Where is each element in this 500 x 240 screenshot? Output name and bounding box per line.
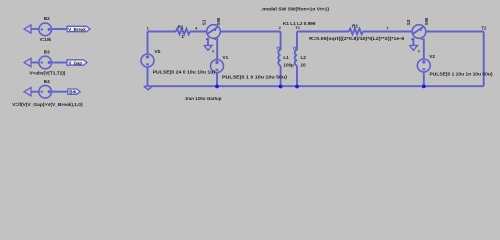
wire top rail L2 to R2: [297, 31, 349, 33]
svg-text:Brk: Brk: [69, 90, 77, 95]
svg-text:S1: S1: [202, 19, 207, 25]
svg-text:R1: R1: [178, 24, 184, 29]
wire: [52, 91, 68, 93]
net flag V_Break: [67, 26, 90, 31]
ground bottom-left: [144, 86, 153, 90]
wire: [31, 28, 39, 30]
inductor L2: [296, 32, 298, 51]
wire top left vertical: [147, 32, 149, 55]
svg-text:B4: B4: [44, 79, 50, 84]
pin mark S1 left: [206, 39, 207, 40]
wire top rail left: [148, 31, 177, 33]
svg-text:V=10k: V=10k: [40, 37, 52, 42]
wire: [52, 62, 68, 64]
resistor R2: [349, 29, 363, 35]
svg-text:.model SW SW(Ron=1n Vt=1): .model SW SW(Ron=1n Vt=1): [261, 6, 330, 11]
bv source B2: [39, 23, 52, 36]
wire bottom rail: [148, 85, 484, 87]
svg-text:B2: B2: [44, 16, 50, 21]
wire: [31, 91, 39, 93]
wire top rail S1 to L1: [220, 31, 280, 33]
left arrow flag row B: [24, 58, 31, 66]
left arrow flag row C: [24, 88, 31, 96]
svg-text:S2: S2: [406, 19, 411, 25]
svg-text:0: 0: [212, 50, 214, 54]
net flag V_Gap: [67, 60, 87, 65]
wire Vb bottom: [147, 67, 149, 86]
switch S2: [412, 25, 426, 39]
svg-text:R=0.05(sqrt(((2*0.8)/10)*I(L2): R=0.05(sqrt(((2*0.8)/10)*I(L2)**2))*1e-6: [309, 36, 405, 41]
voltage source V1: [211, 60, 224, 73]
svg-text:K1 L1 L2 0.999: K1 L1 L2 0.999: [283, 21, 316, 26]
svg-text:V_Break: V_Break: [68, 27, 86, 32]
bv source B3: [39, 56, 52, 69]
svg-text:B3: B3: [44, 50, 50, 55]
svg-text:SW: SW: [216, 17, 221, 25]
ground: [204, 45, 212, 50]
wire: [31, 62, 39, 64]
resistor R1: [176, 29, 190, 35]
svg-text:L1: L1: [283, 55, 289, 60]
svg-text:T2: T2: [481, 25, 487, 30]
svg-text:Vb: Vb: [155, 49, 161, 54]
svg-text:PULSE(0 1 10u 1n 10u 50u): PULSE(0 1 10u 1n 10u 50u): [430, 72, 493, 77]
pin mark S2 right: [421, 39, 422, 40]
svg-text:.tran 120u startup: .tran 120u startup: [184, 96, 221, 101]
wire: [363, 31, 412, 33]
svg-text:V_Gap: V_Gap: [69, 60, 83, 65]
wire V1 bottom: [216, 73, 218, 87]
svg-text:PULSE(0 1 0 10u 10u 50u): PULSE(0 1 0 10u 10u 50u): [222, 74, 288, 79]
junction dot L2: [295, 85, 299, 89]
svg-text:100µ: 100µ: [283, 62, 294, 67]
svg-text:V1: V1: [223, 55, 229, 60]
pin mark S1 right: [215, 39, 216, 40]
svg-text:0: 0: [418, 50, 420, 54]
switch S1: [207, 25, 221, 39]
svg-text:V=if(V(V_Gap)>V(V_Break),1,0): V=if(V(V_Gap)>V(V_Break),1,0): [12, 102, 83, 107]
svg-text:V=abs(V(T1,T2)): V=abs(V(T1,T2)): [29, 70, 65, 75]
junction dot L1: [279, 85, 283, 89]
svg-text:1: 1: [181, 34, 184, 39]
voltage source Vb: [141, 54, 154, 67]
voltage source V2: [417, 59, 430, 72]
svg-text:PULSE(0 24 0 10u 10u 1u): PULSE(0 24 0 10u 10u 1u): [153, 69, 216, 74]
svg-text:L2: L2: [301, 55, 307, 60]
wire top rail right: [426, 31, 484, 33]
wire right vertical: [483, 32, 485, 87]
junction dot V1: [215, 85, 219, 89]
ground: [409, 45, 417, 50]
svg-text:R2: R2: [352, 24, 358, 29]
wire V2 bottom: [423, 72, 425, 86]
junction dot V2: [422, 85, 426, 89]
pin mark S2 left: [411, 39, 412, 40]
net flag Brk: [68, 89, 80, 94]
wire: [190, 31, 207, 33]
wire: [52, 28, 68, 30]
svg-text:10: 10: [301, 62, 307, 67]
svg-text:SW: SW: [424, 17, 429, 25]
bv source B4: [39, 85, 52, 98]
svg-text:V2: V2: [429, 54, 435, 59]
inductor L1: [280, 32, 282, 51]
left arrow flag row A: [24, 25, 31, 33]
